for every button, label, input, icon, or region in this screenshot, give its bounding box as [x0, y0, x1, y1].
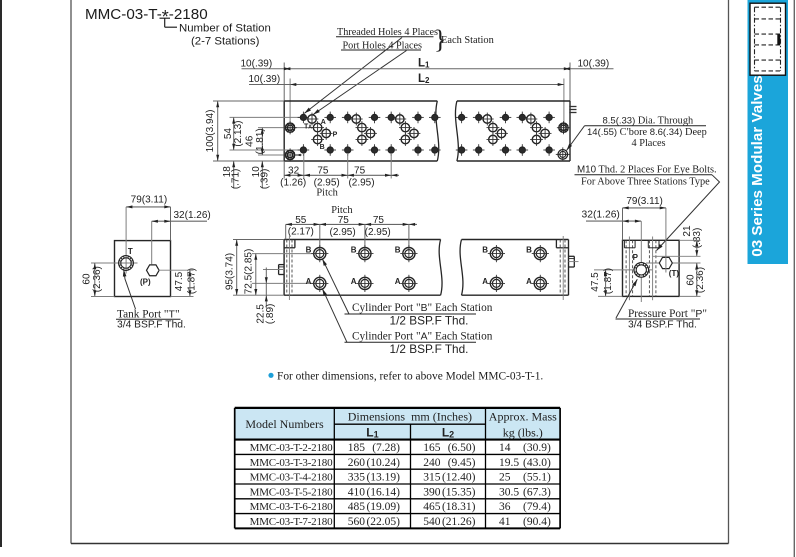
svg-text:47.5: 47.5 — [174, 271, 185, 291]
svg-text:315: 315 — [423, 472, 441, 484]
svg-text:MMC-03-T-2-2180: MMC-03-T-2-2180 — [250, 442, 333, 454]
svg-text:(7.28): (7.28) — [372, 442, 400, 454]
svg-text:MMC-03-T-5-2180: MMC-03-T-5-2180 — [250, 486, 333, 498]
svg-text:75: 75 — [373, 215, 385, 226]
svg-text:1/2 BSP.F Thd.: 1/2 BSP.F Thd. — [390, 314, 469, 328]
svg-text:(2.95): (2.95) — [348, 177, 374, 188]
svg-text:For other dimensions, refer to: For other dimensions, refer to above Mod… — [277, 370, 543, 382]
svg-text:B: B — [482, 245, 488, 254]
svg-text:Pressure Port "P": Pressure Port "P" — [628, 308, 707, 320]
svg-text:Pitch: Pitch — [316, 187, 338, 198]
svg-text:10(.39): 10(.39) — [241, 58, 273, 69]
svg-text:100(3.94): 100(3.94) — [205, 110, 216, 153]
svg-text:(10.24): (10.24) — [366, 457, 400, 469]
svg-text:19.5: 19.5 — [499, 457, 519, 469]
svg-text:B: B — [351, 245, 357, 254]
svg-text:36: 36 — [499, 501, 511, 513]
svg-text:(2-7 Stations): (2-7 Stations) — [191, 35, 260, 47]
svg-text:(P): (P) — [140, 277, 151, 286]
svg-text:(2.36): (2.36) — [92, 266, 103, 292]
svg-text:(55.1): (55.1) — [523, 472, 551, 484]
svg-text:72.5(2.85): 72.5(2.85) — [244, 249, 255, 295]
svg-text:M10 Thd. 2 Places For Eye Bolt: M10 Thd. 2 Places For Eye Bolts. — [577, 165, 717, 176]
svg-text:10(.39): 10(.39) — [578, 58, 610, 69]
svg-text:165: 165 — [423, 442, 441, 454]
svg-text:P: P — [333, 132, 338, 139]
svg-text:(2.95): (2.95) — [330, 227, 356, 238]
svg-text:Number of Station: Number of Station — [179, 23, 271, 35]
svg-text:(1.81): (1.81) — [255, 128, 266, 154]
svg-text:A: A — [321, 119, 326, 126]
svg-text:(T): (T) — [669, 269, 680, 278]
svg-text:75: 75 — [317, 165, 329, 176]
svg-text:32: 32 — [288, 165, 300, 176]
svg-text:P: P — [633, 253, 639, 262]
svg-text:1/2 BSP.F Thd.: 1/2 BSP.F Thd. — [390, 342, 469, 356]
svg-text:(90.4): (90.4) — [523, 516, 551, 528]
svg-text:540: 540 — [423, 516, 441, 528]
svg-text:390: 390 — [423, 486, 441, 498]
svg-text:55: 55 — [295, 215, 307, 226]
svg-text:95(3.74): 95(3.74) — [224, 253, 235, 290]
svg-text:A: A — [526, 277, 532, 286]
svg-text:Cylinder Port "A" Each Station: Cylinder Port "A" Each Station — [352, 330, 493, 342]
svg-text:(79.4): (79.4) — [523, 501, 551, 513]
svg-text:(15.35): (15.35) — [442, 486, 476, 498]
svg-text:465: 465 — [423, 501, 441, 513]
svg-text:(2.95): (2.95) — [365, 227, 391, 238]
svg-text:25: 25 — [499, 472, 511, 484]
svg-text:(21.26): (21.26) — [442, 516, 476, 528]
svg-text:41: 41 — [499, 516, 511, 528]
svg-text:79(3.11): 79(3.11) — [626, 196, 663, 207]
svg-text:(1.26): (1.26) — [280, 177, 306, 188]
svg-text:10(.39): 10(.39) — [249, 74, 281, 85]
svg-text:8.5(.33) Dia. Through: 8.5(.33) Dia. Through — [603, 116, 694, 127]
svg-text:185: 185 — [348, 442, 366, 454]
svg-text:(43.0): (43.0) — [523, 457, 551, 469]
svg-text:485: 485 — [348, 501, 366, 513]
svg-text:3/4 BSP.F Thd.: 3/4 BSP.F Thd. — [628, 320, 697, 331]
svg-text:Tank Port "T": Tank Port "T" — [117, 308, 180, 320]
svg-text:B: B — [306, 245, 312, 254]
svg-text:A: A — [395, 277, 401, 286]
svg-text:(.71): (.71) — [230, 169, 241, 190]
svg-text:Approx. Mass: Approx. Mass — [489, 410, 557, 424]
svg-text:560: 560 — [348, 516, 366, 528]
svg-text:(16.14): (16.14) — [366, 486, 400, 498]
svg-text:(1.87): (1.87) — [187, 268, 198, 294]
svg-text:T: T — [128, 247, 133, 256]
svg-text:(18.31): (18.31) — [442, 501, 476, 513]
svg-text:(22.05): (22.05) — [366, 516, 400, 528]
svg-text:(12.40): (12.40) — [442, 472, 476, 484]
svg-text:410: 410 — [348, 486, 366, 498]
svg-text:(30.9): (30.9) — [523, 442, 551, 454]
svg-text:MMC-03-T-3-2180: MMC-03-T-3-2180 — [250, 457, 333, 469]
svg-text:(2.13): (2.13) — [233, 121, 244, 147]
svg-text:A: A — [482, 277, 488, 286]
svg-text:(6.50): (6.50) — [448, 442, 476, 454]
svg-text:Model Numbers: Model Numbers — [245, 417, 324, 431]
svg-text:03 Series Modular Valves: 03 Series Modular Valves — [749, 75, 766, 257]
svg-text:240: 240 — [423, 457, 441, 469]
svg-text:14(.55) C′bore 8.6(.34) Deep: 14(.55) C′bore 8.6(.34) Deep — [587, 127, 707, 138]
svg-text:79(3.11): 79(3.11) — [131, 195, 168, 206]
svg-text:Each Station: Each Station — [441, 35, 495, 46]
svg-text:Dimensions mm (Inches): Dimensions mm (Inches) — [348, 410, 472, 424]
svg-text:(19.09): (19.09) — [366, 501, 400, 513]
svg-text:335: 335 — [348, 472, 366, 484]
svg-text:(13.19): (13.19) — [366, 472, 400, 484]
svg-text:(9.45): (9.45) — [448, 457, 476, 469]
svg-text:260: 260 — [348, 457, 366, 469]
svg-text:75: 75 — [338, 215, 350, 226]
svg-text:A: A — [351, 277, 357, 286]
svg-text:(.39): (.39) — [260, 169, 271, 190]
svg-text:30.5: 30.5 — [499, 486, 519, 498]
svg-text:MMC-03-T-6-2180: MMC-03-T-6-2180 — [250, 501, 333, 513]
svg-text:(2.17): (2.17) — [288, 226, 314, 237]
svg-text:A: A — [306, 277, 312, 286]
svg-text:32(1.26): 32(1.26) — [582, 209, 620, 220]
svg-text:MMC-03-T-4-2180: MMC-03-T-4-2180 — [250, 472, 333, 484]
svg-text:3/4 BSP.F Thd.: 3/4 BSP.F Thd. — [117, 320, 186, 331]
svg-text:B: B — [395, 245, 401, 254]
svg-text:TA: TA — [304, 123, 312, 130]
svg-text:(1.87): (1.87) — [603, 268, 614, 294]
svg-text:B: B — [526, 245, 532, 254]
svg-text:kg (lbs.): kg (lbs.) — [503, 425, 543, 439]
svg-text:75: 75 — [354, 165, 366, 176]
svg-text:47.5: 47.5 — [590, 272, 601, 292]
svg-text:14: 14 — [499, 442, 511, 454]
svg-text:MMC-03-T-7-2180: MMC-03-T-7-2180 — [250, 516, 333, 528]
svg-text:B: B — [320, 144, 325, 151]
svg-text:(.89): (.89) — [265, 304, 276, 325]
svg-text:Cylinder Port "B" Each Station: Cylinder Port "B" Each Station — [352, 302, 493, 314]
svg-text:4 Places: 4 Places — [632, 138, 666, 149]
svg-text:For Above Three Stations Type: For Above Three Stations Type — [581, 176, 710, 187]
svg-text:32(1.26): 32(1.26) — [174, 210, 211, 221]
svg-text:(67.3): (67.3) — [523, 486, 551, 498]
